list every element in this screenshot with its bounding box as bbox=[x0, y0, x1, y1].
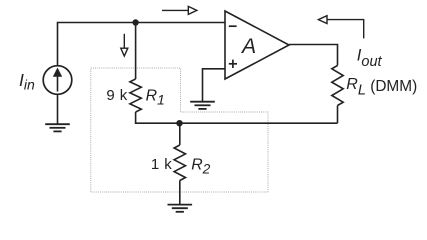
svg-text:A: A bbox=[240, 35, 256, 58]
svg-text:9 k: 9 k bbox=[106, 87, 127, 104]
svg-text:1 k: 1 k bbox=[151, 156, 172, 173]
svg-text:(DMM): (DMM) bbox=[370, 78, 417, 95]
